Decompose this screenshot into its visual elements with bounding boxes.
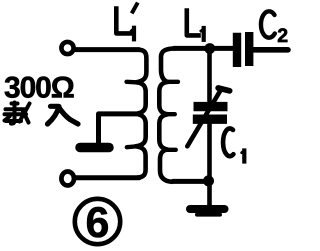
wire (bottom-left rail from T2 to L1' bottom) (76, 175, 139, 180)
terminal T1 (top input terminal) (61, 42, 73, 54)
label L1' (116, 4, 137, 39)
wire (bottom rail from L1 to node B) (173, 179, 207, 184)
inductor L1 (right winding, 4 turns) (159, 48, 175, 181)
wire (top-left rail from T1 to L1' top) (76, 47, 140, 52)
value label shu (feed-in char 1) (5, 103, 30, 124)
node A (junction of L1, C1, C2) (204, 43, 215, 54)
ground G2 (main ground) (190, 205, 225, 213)
wire (L1 cusp tick 1) (168, 80, 178, 84)
wire (L1' cusp tick 1) (127, 80, 137, 85)
svg-text:2: 2 (277, 25, 288, 47)
wire (top rail from L1 to C2) (174, 46, 234, 51)
capacitor C2 (237, 32, 249, 67)
label L1 (187, 11, 204, 40)
wire (from node A down to C1) (207, 49, 212, 102)
terminal T2 (bottom input terminal) (61, 172, 74, 186)
wire (L1 cusp tick 3) (168, 148, 176, 152)
svg-text:300Ω: 300Ω (4, 72, 74, 105)
wire (tap from L1' to ground) (99, 114, 136, 143)
capacitor C1 (variable) (193, 107, 228, 120)
wire (L1' cusp tick 3) (127, 144, 136, 149)
node B (junction of L1 bottom, C1 bottom, ground) (203, 175, 214, 186)
figure number 6 (75, 199, 120, 244)
label C1 (223, 128, 244, 161)
value label ru (feed-in char 2) (48, 106, 79, 124)
inductor L1' (left winding, 4 turns) (136, 50, 147, 178)
svg-text:6: 6 (86, 199, 110, 247)
wire (from C1 down to node B and ground) (207, 124, 212, 206)
label C2 (261, 11, 275, 37)
wire (output wire right of C2) (254, 47, 288, 53)
wire (L1 cusp tick 2) (168, 112, 175, 116)
ground G1 (tap ground bar) (80, 143, 109, 153)
wire (C1 trimmer arrow) (187, 90, 221, 147)
